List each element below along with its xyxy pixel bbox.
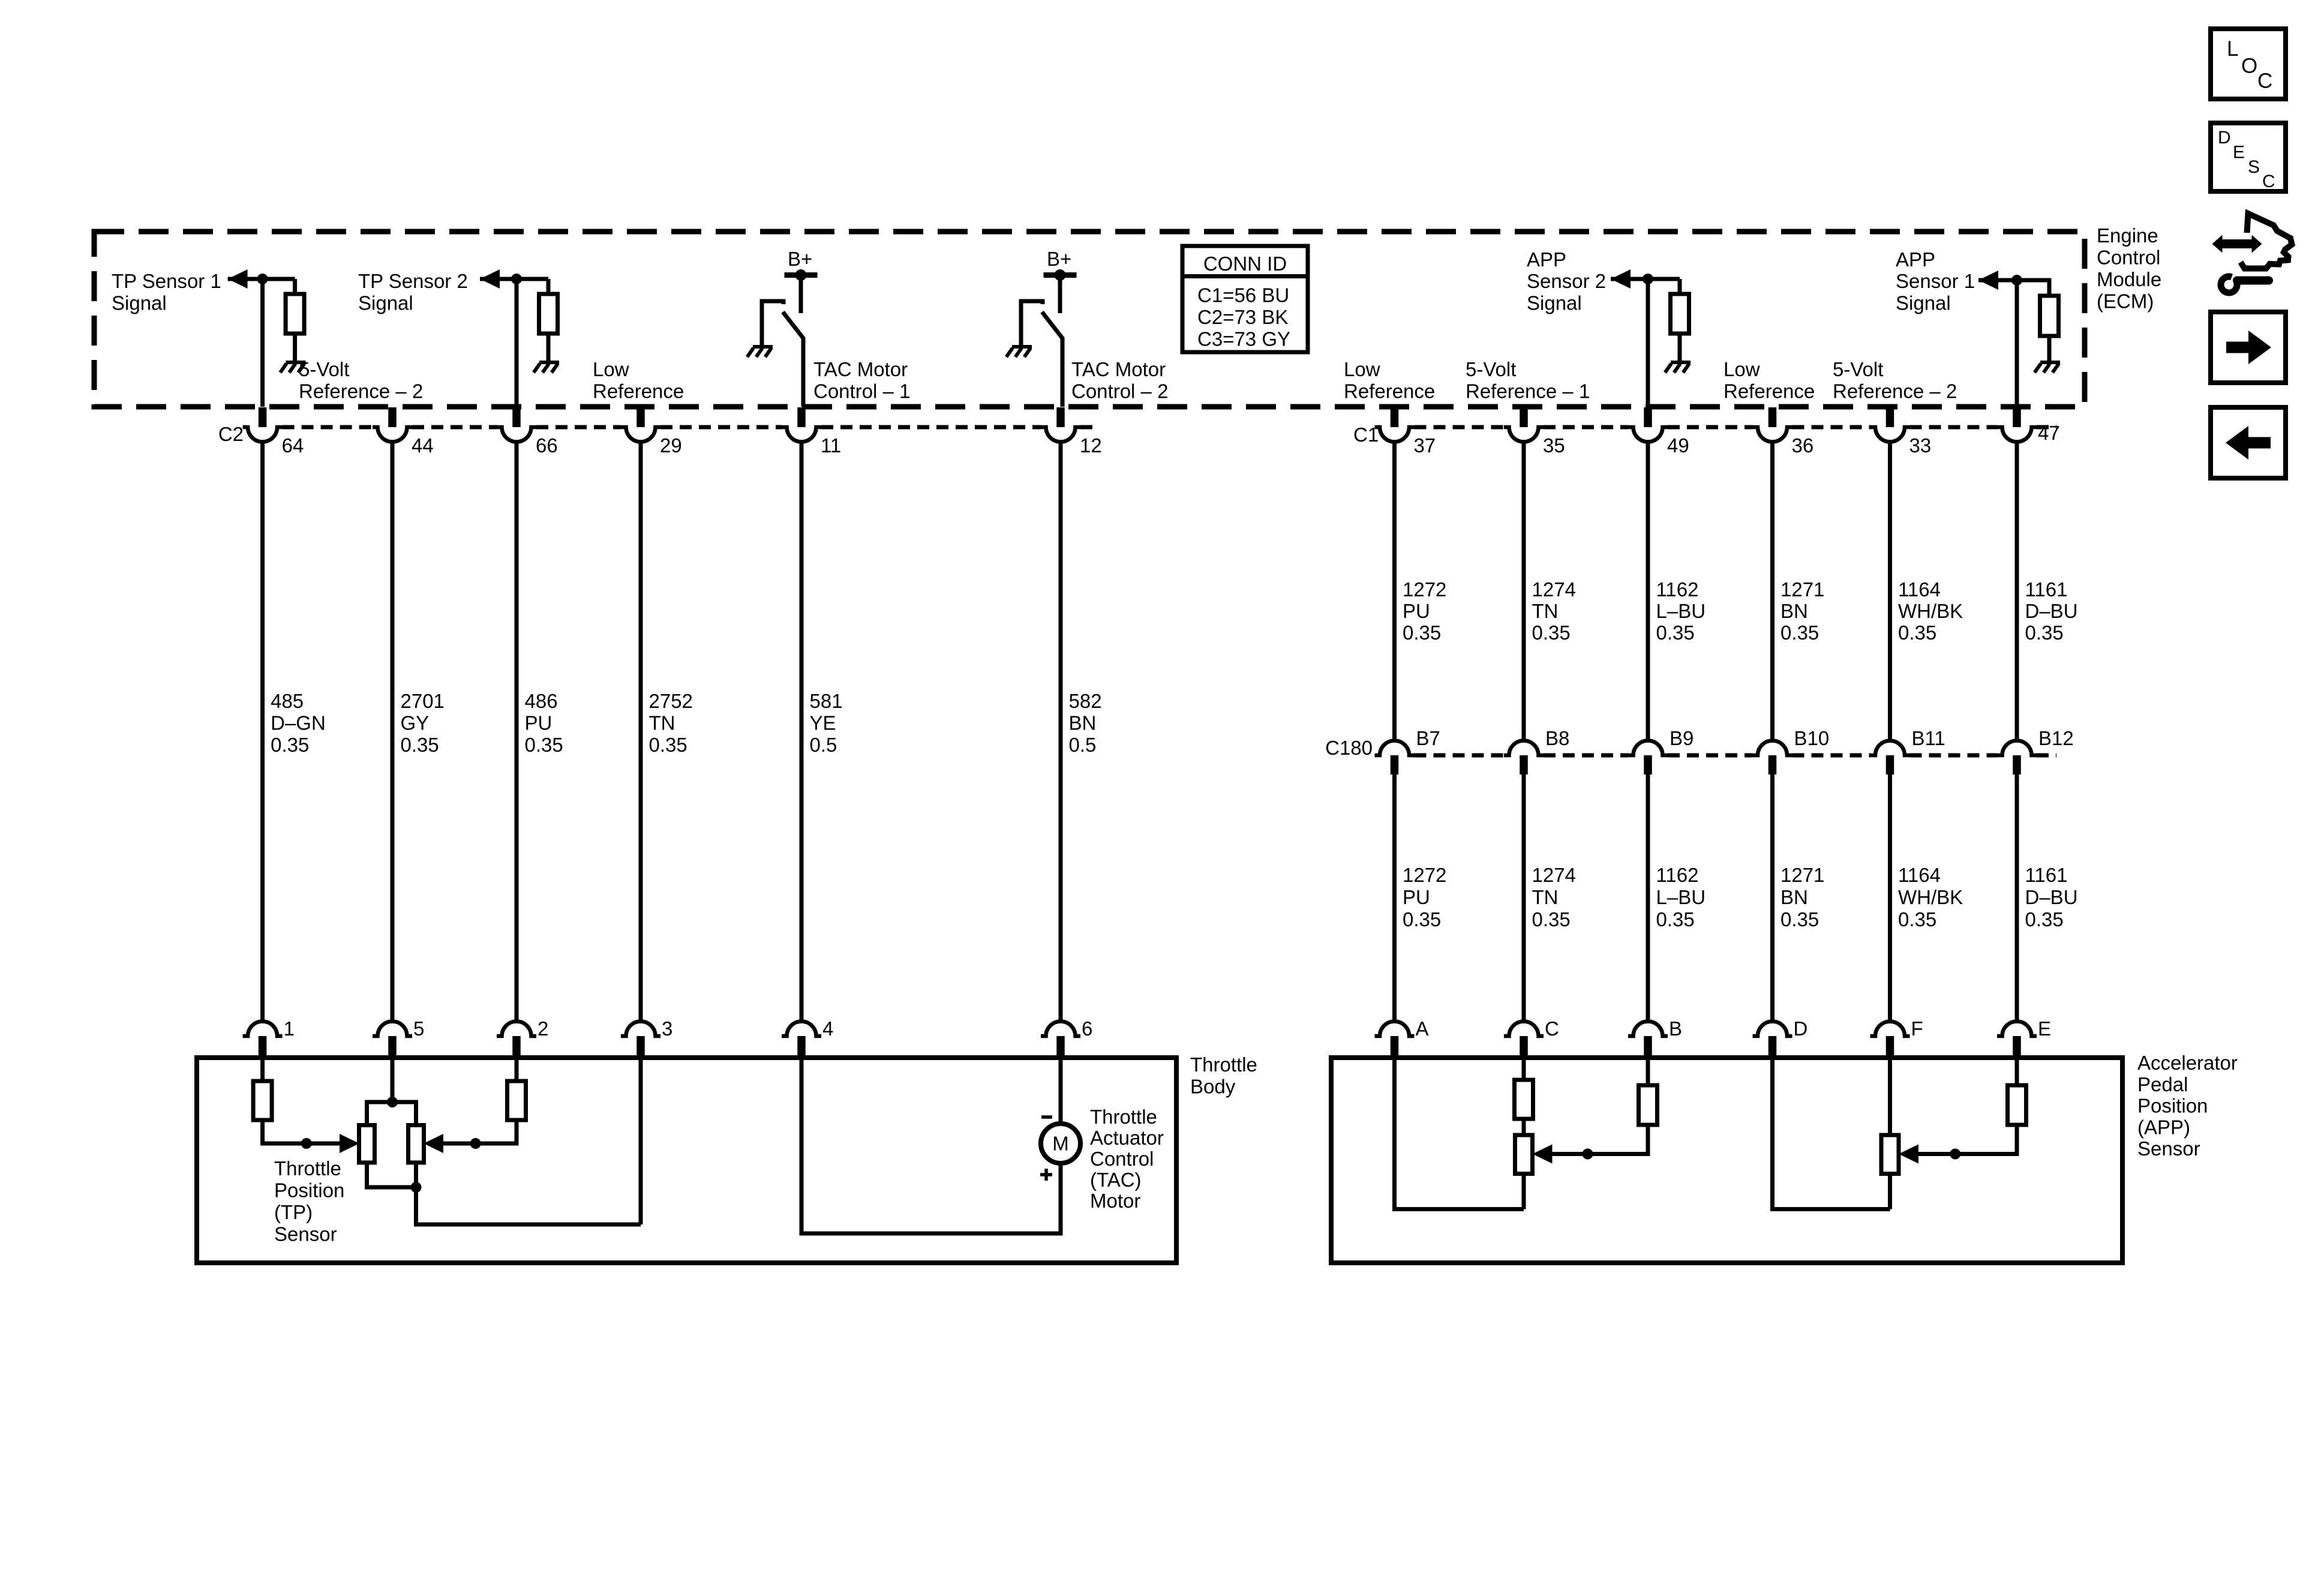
ECM pin 47 stub bbox=[2013, 407, 2021, 427]
svg-text:WH/BK: WH/BK bbox=[1898, 886, 1963, 908]
icon box arrow right bbox=[2211, 312, 2286, 383]
svg-text:WH/BK: WH/BK bbox=[1898, 600, 1963, 622]
svg-text:3: 3 bbox=[662, 1017, 672, 1040]
svg-text:B9: B9 bbox=[1670, 727, 1694, 749]
TP pot bottom bridge bbox=[367, 1163, 416, 1187]
arrow APP Sensor 1 signal bbox=[1978, 271, 1998, 290]
resistor R-TP2 (ECM pull) bbox=[547, 279, 551, 294]
svg-text:2701: 2701 bbox=[401, 690, 445, 712]
svg-text:M: M bbox=[1052, 1133, 1069, 1155]
svg-text:TP Sensor 2: TP Sensor 2 bbox=[358, 270, 468, 292]
svg-text:29: 29 bbox=[660, 434, 682, 457]
component pin C stub bbox=[1520, 1036, 1528, 1058]
C180 B9 stub bbox=[1644, 755, 1652, 775]
svg-text:BN: BN bbox=[1069, 712, 1097, 734]
wire pin 37 upper run bbox=[1392, 442, 1397, 741]
APP1 series resistor bbox=[1515, 1080, 1533, 1119]
svg-text:0.35: 0.35 bbox=[1898, 908, 1936, 930]
resistor R-TP1 (ECM pull) bbox=[293, 279, 297, 294]
svg-text:(ECM): (ECM) bbox=[2097, 290, 2154, 313]
TP pot element left bbox=[359, 1125, 375, 1163]
component pin 4 connector arc bbox=[782, 1021, 821, 1036]
svg-text:0.35: 0.35 bbox=[2025, 908, 2064, 930]
APP1 junction dot wiper bbox=[1583, 1149, 1593, 1160]
ECM pin 11 connector arc bbox=[782, 427, 821, 442]
svg-text:0.35: 0.35 bbox=[525, 734, 563, 756]
component pin 3 stub bbox=[636, 1036, 645, 1058]
svg-text:47: 47 bbox=[2038, 422, 2060, 444]
component pin 2 connector arc bbox=[497, 1021, 536, 1036]
svg-text:1274: 1274 bbox=[1532, 578, 1576, 601]
svg-text:Sensor: Sensor bbox=[274, 1223, 337, 1245]
resistor TP wiper 2 bbox=[508, 1081, 526, 1120]
ECM pin 11 stub bbox=[797, 407, 806, 427]
junction dot TP wiper 1 bbox=[301, 1138, 312, 1149]
svg-text:37: 37 bbox=[1414, 434, 1436, 457]
APP2 wire pot to low ref bbox=[1888, 1174, 1892, 1209]
svg-text:BN: BN bbox=[1780, 886, 1808, 908]
APP1 wire resistor to pot bbox=[1522, 1119, 1526, 1135]
svg-text:0.35: 0.35 bbox=[1656, 622, 1695, 644]
svg-text:1161: 1161 bbox=[2025, 864, 2068, 886]
component pin D stub bbox=[1768, 1036, 1777, 1058]
TAC motor circle bbox=[1041, 1124, 1080, 1163]
svg-text:Sensor 2: Sensor 2 bbox=[1527, 270, 1606, 292]
svg-text:CONN ID: CONN ID bbox=[1203, 253, 1287, 275]
ECM pin 66 connector arc bbox=[497, 427, 536, 442]
svg-text:Control: Control bbox=[2097, 247, 2160, 269]
svg-text:0.35: 0.35 bbox=[1780, 908, 1819, 930]
wire pin 6 to motor − bbox=[1059, 1058, 1063, 1124]
component pin F connector arc bbox=[1870, 1022, 1910, 1036]
svg-text:0.35: 0.35 bbox=[1656, 908, 1695, 930]
wire B11 lower run bbox=[1888, 775, 1892, 1022]
junction dot TP low ref bbox=[411, 1182, 422, 1193]
svg-text:D–GN: D–GN bbox=[271, 712, 326, 734]
svg-text:6: 6 bbox=[1082, 1017, 1092, 1040]
svg-text:B8: B8 bbox=[1545, 727, 1569, 749]
svg-text:33: 33 bbox=[1909, 434, 1932, 457]
svg-text:L–BU: L–BU bbox=[1656, 600, 1706, 622]
svg-text:C: C bbox=[1545, 1017, 1559, 1040]
svg-text:PU: PU bbox=[1403, 886, 1430, 908]
ECM pin 66 stub bbox=[512, 407, 521, 427]
wire B8 lower run bbox=[1522, 775, 1526, 1022]
wire pin 5 into box bbox=[391, 1058, 395, 1102]
component pin A stub bbox=[1391, 1036, 1399, 1058]
ground (TAC 12) bbox=[1012, 345, 1032, 349]
wire TP1 arrow to resistor bbox=[228, 277, 295, 281]
svg-text:Throttle: Throttle bbox=[1190, 1053, 1257, 1076]
ground TP1 resistor bbox=[286, 361, 306, 364]
svg-text:0.5: 0.5 bbox=[810, 734, 837, 756]
wire pin 64 inside ECM bbox=[260, 279, 265, 407]
junction dot B+ (TAC 12) bbox=[1055, 269, 1066, 281]
resistor R-APP2 (ECM pull) bbox=[1678, 279, 1682, 294]
CONN ID header separator bbox=[1182, 274, 1308, 278]
component pin A connector arc bbox=[1375, 1021, 1415, 1036]
svg-text:(TP): (TP) bbox=[274, 1201, 313, 1223]
APP2 pot element bbox=[1881, 1135, 1899, 1174]
svg-text:12: 12 bbox=[1080, 434, 1102, 457]
APP2 wiper arrow bbox=[1899, 1145, 1918, 1164]
B+ terminal bar (TAC 11) bbox=[785, 272, 818, 278]
APP2 wire 5V pin into box bbox=[1888, 1058, 1892, 1135]
APP sensor box bbox=[1331, 1058, 2122, 1263]
component pin 1 connector arc bbox=[243, 1021, 283, 1036]
wire pin 29 run bbox=[639, 442, 643, 1022]
svg-text:Signal: Signal bbox=[1527, 292, 1582, 314]
wire pin 33 upper run bbox=[1888, 442, 1892, 741]
ECM pin 47 connector arc bbox=[1997, 427, 2037, 442]
ECM pin 29 connector arc bbox=[621, 427, 660, 442]
wire TP2 arrow to resistor bbox=[480, 277, 548, 281]
ECM pin 49 stub bbox=[1644, 407, 1652, 427]
svg-text:F: F bbox=[1911, 1017, 1923, 1040]
APP1 wire resistor to wiper bbox=[1553, 1125, 1649, 1154]
C180 B10 connector arc bbox=[1753, 740, 1792, 755]
svg-text:B10: B10 bbox=[1794, 727, 1830, 749]
junction dot pin 47 bbox=[2011, 275, 2022, 286]
svg-text:Low: Low bbox=[1344, 358, 1380, 380]
component pin D connector arc bbox=[1753, 1021, 1792, 1036]
ECM pin 29 stub bbox=[636, 407, 645, 427]
svg-text:0.35: 0.35 bbox=[271, 734, 309, 756]
svg-text:Actuator: Actuator bbox=[1090, 1127, 1164, 1149]
B+ contact stub (TAC 11) bbox=[799, 275, 803, 314]
B+ terminal bar (TAC 12) bbox=[1044, 272, 1077, 278]
icon box arrow left bbox=[2211, 407, 2286, 478]
svg-text:1272: 1272 bbox=[1403, 864, 1446, 886]
svg-text:44: 44 bbox=[412, 434, 434, 457]
C180 B10 stub bbox=[1768, 755, 1777, 775]
icon box LOC bbox=[2211, 29, 2286, 99]
junction dot TP wiper 2 bbox=[470, 1138, 481, 1149]
svg-text:4: 4 bbox=[822, 1017, 833, 1040]
wire pin 4 to motor + bbox=[801, 1058, 1061, 1233]
junction dot pin 49 bbox=[1643, 274, 1653, 284]
ground TP2 resistor bbox=[539, 361, 559, 364]
component pin C connector arc bbox=[1504, 1021, 1544, 1036]
wire R1 to wiper arrow bbox=[263, 1120, 340, 1143]
wire pin 12 run bbox=[1059, 442, 1063, 1022]
APP1 wire low-ref pin into box bbox=[1395, 1058, 1524, 1209]
svg-text:0.35: 0.35 bbox=[649, 734, 687, 756]
component pin E connector arc bbox=[1997, 1021, 2037, 1036]
wire blade to ground L (TAC 11) bbox=[762, 301, 783, 347]
CONN ID table box bbox=[1182, 246, 1308, 352]
svg-text:D–BU: D–BU bbox=[2025, 600, 2078, 622]
wire B12 lower run bbox=[2015, 775, 2019, 1022]
icon box DESC bbox=[2211, 123, 2286, 191]
svg-text:Control – 1: Control – 1 bbox=[813, 380, 910, 403]
svg-text:1162: 1162 bbox=[1656, 578, 1699, 601]
svg-text:1162: 1162 bbox=[1656, 864, 1699, 886]
svg-text:Control: Control bbox=[1090, 1148, 1154, 1170]
C180 B12 stub bbox=[2013, 755, 2021, 775]
C180 B12 connector arc bbox=[1997, 740, 2037, 755]
plus sign TAC motor bbox=[1040, 1173, 1052, 1176]
junction dot TP 5V bbox=[387, 1097, 398, 1107]
svg-text:C2: C2 bbox=[218, 423, 244, 445]
switch blade (TAC 12) bbox=[1042, 312, 1063, 339]
svg-text:5-Volt: 5-Volt bbox=[1833, 358, 1883, 380]
arrow TP Sensor 2 signal bbox=[480, 269, 500, 289]
svg-text:485: 485 bbox=[271, 690, 304, 712]
svg-text:66: 66 bbox=[536, 434, 558, 457]
wire APP2 arrow to resistor bbox=[1611, 277, 1680, 281]
ECM pin 12 stub bbox=[1056, 407, 1065, 427]
wire TAC 12 to pin bbox=[1061, 338, 1065, 407]
wire B10 lower run bbox=[1770, 775, 1774, 1022]
svg-text:TP Sensor 1: TP Sensor 1 bbox=[112, 270, 221, 292]
svg-text:GY: GY bbox=[401, 712, 430, 734]
component pin 3 connector arc bbox=[621, 1021, 660, 1036]
icon arrow right bbox=[2226, 342, 2249, 353]
svg-text:C: C bbox=[2257, 70, 2272, 93]
svg-text:B12: B12 bbox=[2038, 727, 2074, 749]
svg-text:2: 2 bbox=[538, 1017, 548, 1040]
wire pin 2 into box bbox=[515, 1058, 519, 1081]
svg-text:APP: APP bbox=[1896, 248, 1935, 271]
svg-text:A: A bbox=[1416, 1017, 1429, 1040]
svg-text:L: L bbox=[2227, 37, 2238, 61]
svg-text:0.35: 0.35 bbox=[1780, 622, 1819, 644]
wire B7 lower run bbox=[1392, 775, 1397, 1022]
APP2 wire signal pin into box bbox=[2015, 1058, 2019, 1085]
svg-text:TN: TN bbox=[649, 712, 675, 734]
component pin 5 connector arc bbox=[373, 1021, 412, 1036]
component pin E stub bbox=[2013, 1036, 2021, 1058]
resistor TP wiper 1 bbox=[253, 1081, 272, 1120]
svg-text:YE: YE bbox=[810, 712, 836, 734]
C180 B7 stub bbox=[1391, 755, 1399, 775]
wire APP1 arrow to resistor bbox=[1978, 280, 2049, 296]
svg-text:582: 582 bbox=[1069, 690, 1102, 712]
ECM pin 33 connector arc bbox=[1870, 427, 1910, 442]
svg-text:C: C bbox=[2262, 172, 2275, 191]
wire B9 lower run bbox=[1646, 775, 1650, 1022]
svg-text:PU: PU bbox=[525, 712, 553, 734]
wire pin 49 upper run bbox=[1646, 442, 1650, 741]
component pin B connector arc bbox=[1628, 1021, 1668, 1036]
svg-text:Sensor 1: Sensor 1 bbox=[1896, 270, 1975, 292]
ground APP1 resistor bbox=[2040, 361, 2060, 364]
svg-text:Control – 2: Control – 2 bbox=[1071, 380, 1168, 403]
APP1 pot element bbox=[1515, 1135, 1533, 1174]
svg-text:TN: TN bbox=[1532, 600, 1559, 622]
wire pin 66 inside ECM bbox=[515, 279, 519, 407]
svg-text:Accelerator: Accelerator bbox=[2137, 1052, 2238, 1074]
svg-text:1271: 1271 bbox=[1780, 864, 1824, 886]
ECM pin 33 stub bbox=[1886, 407, 1894, 427]
svg-text:486: 486 bbox=[525, 690, 558, 712]
svg-text:Throttle: Throttle bbox=[274, 1157, 341, 1179]
svg-text:35: 35 bbox=[1543, 434, 1565, 457]
svg-text:E: E bbox=[2233, 143, 2245, 163]
arrow TP wiper 2 bbox=[424, 1134, 443, 1153]
wire TP low ref to pin 3 bbox=[416, 1187, 641, 1224]
svg-text:1271: 1271 bbox=[1780, 578, 1824, 601]
component pin 5 stub bbox=[388, 1036, 397, 1058]
APP1 wire pot to low ref bbox=[1522, 1174, 1526, 1209]
svg-text:TAC Motor: TAC Motor bbox=[1071, 358, 1166, 380]
connector C2 dashed line bbox=[283, 425, 373, 430]
svg-text:Throttle: Throttle bbox=[1090, 1106, 1157, 1128]
ECM pin 36 stub bbox=[1768, 407, 1777, 427]
svg-text:B+: B+ bbox=[1047, 248, 1071, 270]
svg-text:BN: BN bbox=[1780, 600, 1808, 622]
svg-text:L–BU: L–BU bbox=[1656, 886, 1706, 908]
wire pin 1 into box bbox=[260, 1058, 265, 1081]
APP1 signal resistor bbox=[1639, 1085, 1658, 1125]
svg-text:Position: Position bbox=[2137, 1095, 2208, 1117]
component pin 4 stub bbox=[797, 1036, 806, 1058]
svg-text:Module: Module bbox=[2097, 268, 2161, 290]
APP1 wire 5V pin into box bbox=[1522, 1058, 1526, 1080]
svg-text:TN: TN bbox=[1532, 886, 1559, 908]
wire pin 36 upper run bbox=[1770, 442, 1774, 741]
svg-text:5: 5 bbox=[413, 1017, 424, 1040]
svg-text:PU: PU bbox=[1403, 600, 1430, 622]
svg-text:Reference – 2: Reference – 2 bbox=[1833, 380, 1957, 403]
svg-text:Low: Low bbox=[593, 358, 629, 380]
svg-text:Reference – 1: Reference – 1 bbox=[1466, 380, 1590, 403]
svg-text:C1=56 BU: C1=56 BU bbox=[1197, 284, 1289, 307]
TP pot top bridge bbox=[367, 1102, 416, 1125]
ECM pin 37 stub bbox=[1391, 407, 1399, 427]
svg-text:0.5: 0.5 bbox=[1069, 734, 1097, 756]
svg-text:Body: Body bbox=[1190, 1076, 1236, 1098]
component pin 1 stub bbox=[259, 1036, 267, 1058]
svg-text:Reference: Reference bbox=[593, 380, 684, 403]
svg-text:(TAC): (TAC) bbox=[1090, 1169, 1142, 1191]
APP2 wire resistor to wiper bbox=[1918, 1125, 2017, 1154]
svg-text:C3=73 GY: C3=73 GY bbox=[1197, 328, 1290, 350]
C180 B8 connector arc bbox=[1504, 740, 1544, 755]
svg-text:64: 64 bbox=[282, 434, 304, 457]
wire pin 3 into box bbox=[639, 1058, 643, 1224]
component pin 6 connector arc bbox=[1041, 1021, 1080, 1036]
C180 B11 connector arc bbox=[1870, 741, 1910, 755]
svg-text:Reference – 2: Reference – 2 bbox=[299, 380, 423, 403]
svg-text:36: 36 bbox=[1792, 434, 1814, 457]
svg-text:D: D bbox=[2218, 128, 2231, 148]
svg-text:Signal: Signal bbox=[1896, 292, 1951, 314]
C180 B11 stub bbox=[1886, 755, 1894, 775]
svg-text:1272: 1272 bbox=[1403, 578, 1446, 601]
resistor R-APP1 (ECM pull) bbox=[2040, 296, 2059, 336]
svg-text:B+: B+ bbox=[788, 248, 812, 270]
svg-text:(APP): (APP) bbox=[2137, 1116, 2190, 1138]
svg-text:D–BU: D–BU bbox=[2025, 886, 2078, 908]
wire pin 44 run bbox=[391, 442, 395, 1022]
B+ contact stub (TAC 12) bbox=[1058, 275, 1062, 314]
icon arrow left bbox=[2248, 437, 2271, 449]
svg-text:0.35: 0.35 bbox=[1898, 622, 1936, 644]
ground (TAC 11) bbox=[753, 345, 773, 349]
wire pin 49 inside ECM bbox=[1646, 279, 1650, 407]
minus sign TAC motor bbox=[1041, 1115, 1052, 1119]
wire pin 11 run bbox=[800, 442, 804, 1022]
svg-text:TAC Motor: TAC Motor bbox=[813, 358, 908, 380]
ECM pin 35 stub bbox=[1520, 407, 1528, 427]
wire pin 47 upper run bbox=[2015, 442, 2019, 741]
svg-text:O: O bbox=[2241, 55, 2257, 78]
APP2 junction dot wiper bbox=[1950, 1149, 1960, 1160]
component pin B stub bbox=[1644, 1036, 1652, 1058]
throttle body box bbox=[197, 1058, 1176, 1263]
APP1 wire signal pin into box bbox=[1646, 1058, 1650, 1085]
svg-text:0.35: 0.35 bbox=[2025, 622, 2064, 644]
svg-text:Engine: Engine bbox=[2097, 224, 2158, 247]
ECM pin 64 connector arc bbox=[243, 427, 283, 442]
wire pin 35 upper run bbox=[1522, 442, 1526, 741]
svg-text:Position: Position bbox=[274, 1179, 344, 1202]
arrow APP Sensor 2 signal bbox=[1611, 269, 1631, 289]
svg-text:C2=73 BK: C2=73 BK bbox=[1197, 306, 1288, 328]
component pin 6 stub bbox=[1056, 1036, 1065, 1058]
ECM pin 64 stub bbox=[259, 407, 267, 427]
svg-text:1161: 1161 bbox=[2025, 578, 2068, 601]
svg-text:Reference: Reference bbox=[1344, 380, 1435, 403]
ECM pin 36 connector arc bbox=[1753, 427, 1792, 442]
arrow TP Sensor 1 signal bbox=[228, 269, 248, 289]
svg-text:2752: 2752 bbox=[649, 690, 693, 712]
svg-text:581: 581 bbox=[810, 690, 843, 712]
svg-text:Signal: Signal bbox=[112, 292, 167, 314]
svg-text:1: 1 bbox=[284, 1017, 295, 1040]
svg-text:0.35: 0.35 bbox=[1532, 622, 1571, 644]
junction dot pin 66 bbox=[511, 274, 522, 284]
junction dot B+ (TAC 11) bbox=[795, 269, 807, 281]
svg-text:Sensor: Sensor bbox=[2137, 1137, 2200, 1160]
C180 B8 stub bbox=[1520, 755, 1528, 775]
svg-text:B: B bbox=[1669, 1017, 1682, 1040]
svg-text:Pedal: Pedal bbox=[2137, 1073, 2188, 1095]
wire pin 66 run bbox=[515, 442, 519, 1022]
svg-text:1274: 1274 bbox=[1532, 864, 1576, 886]
svg-text:B11: B11 bbox=[1912, 727, 1945, 749]
component pin F stub bbox=[1886, 1036, 1894, 1058]
svg-text:APP: APP bbox=[1527, 248, 1566, 271]
svg-text:0.35: 0.35 bbox=[1403, 908, 1441, 930]
wire pin 47 inside ECM bbox=[2015, 280, 2019, 407]
svg-text:1164: 1164 bbox=[1898, 578, 1941, 601]
APP2 wire low-ref pin into box bbox=[1773, 1058, 1890, 1209]
C180 B7 connector arc bbox=[1375, 740, 1415, 755]
wire pin 64 run bbox=[260, 442, 265, 1022]
APP1 wiper arrow bbox=[1533, 1145, 1553, 1164]
svg-text:1164: 1164 bbox=[1898, 864, 1941, 886]
ground APP2 resistor bbox=[1671, 361, 1691, 364]
ECM pin 44 stub bbox=[388, 407, 397, 427]
ECM pin 49 connector arc bbox=[1628, 427, 1668, 442]
svg-text:5-Volt: 5-Volt bbox=[1466, 358, 1516, 380]
APP2 signal resistor bbox=[2008, 1085, 2026, 1125]
component pin 2 stub bbox=[512, 1036, 521, 1058]
svg-text:5-Volt: 5-Volt bbox=[299, 358, 349, 380]
svg-text:11: 11 bbox=[821, 434, 841, 457]
wire R2 to wiper arrow bbox=[443, 1120, 517, 1143]
ECM module dashed box bbox=[94, 232, 2085, 407]
wire TAC 11 to pin bbox=[801, 338, 806, 407]
svg-text:Low: Low bbox=[1724, 358, 1760, 380]
TP pot element right bbox=[409, 1125, 424, 1163]
icon car outline with double arrow and wrench bbox=[2221, 214, 2292, 293]
C180 B9 connector arc bbox=[1628, 740, 1668, 755]
svg-text:Reference: Reference bbox=[1724, 380, 1815, 403]
